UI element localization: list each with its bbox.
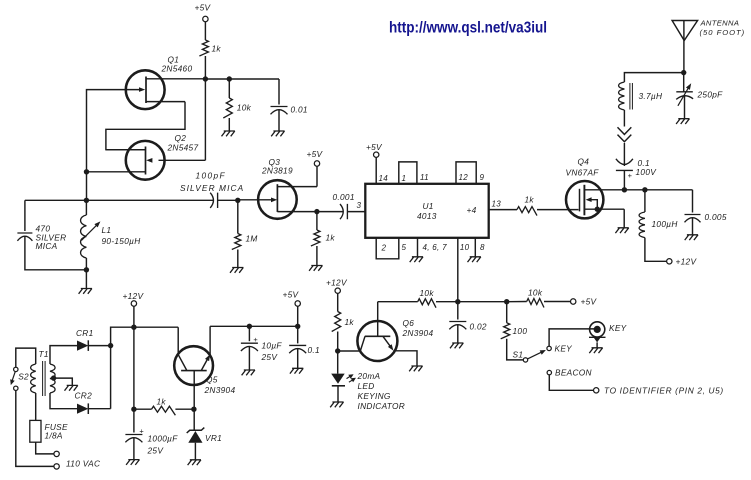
wire 1M to ground: [237, 250, 239, 268]
wire 1k ends: [134, 408, 194, 410]
svg-text:1M: 1M: [246, 234, 258, 244]
wire 100 to S1 hinge: [507, 339, 524, 360]
svg-text:U1: U1: [423, 201, 434, 211]
pin jumper 2-5 tab: [376, 238, 399, 259]
wire keying rail left: [378, 301, 418, 303]
svg-text:TO IDENTIFIER (PIN 2, U5): TO IDENTIFIER (PIN 2, U5): [604, 386, 724, 396]
ground (250pF): [676, 119, 689, 124]
svg-text:Q6: Q6: [403, 318, 415, 328]
power +5V terminal (U1 pin 14): [374, 152, 379, 157]
svg-text:2N3904: 2N3904: [402, 328, 434, 338]
wire 10k to pin10 node: [436, 301, 458, 303]
fuse FUSE 1/8A: [35, 393, 37, 420]
svg-text:1: 1: [402, 174, 407, 183]
ground (VR1): [188, 460, 201, 465]
svg-text:1k: 1k: [525, 194, 535, 204]
ground (key jack): [589, 348, 602, 353]
power +5V terminal (keying pullup): [571, 299, 576, 304]
capacitor 1000uF 25V (filter): [133, 409, 135, 432]
wire +5V rail: [210, 325, 298, 327]
wire pin 10 down to keying rail: [457, 238, 459, 302]
transistor Q2 2N5457 (JFET): [126, 141, 165, 180]
node junction 0.1 / +5V: [295, 324, 300, 329]
svg-text:4013: 4013: [417, 211, 437, 221]
svg-text:100: 100: [513, 326, 528, 336]
transistor Q6 2N3904 (keying): [357, 321, 397, 361]
node junction +12V rail: [131, 325, 136, 330]
svg-text:90-150µH: 90-150µH: [102, 236, 141, 246]
wire +5V to R 1k: [204, 22, 206, 40]
svg-text:2N3904: 2N3904: [204, 385, 236, 395]
svg-text:10: 10: [460, 243, 470, 252]
node junction 10uF: [247, 324, 252, 329]
svg-text:KEY: KEY: [555, 344, 574, 354]
svg-text:2N5460: 2N5460: [161, 64, 193, 74]
inductor L1 90-150uH (variable): [85, 200, 87, 215]
svg-text:S2: S2: [18, 372, 29, 382]
svg-text:2: 2: [381, 243, 387, 252]
ground (center tap): [65, 385, 78, 390]
wire node A down to Q2 gate: [204, 79, 206, 160]
transistor Q1 2N5460 (JFET): [126, 70, 165, 109]
svg-text:1k: 1k: [326, 233, 336, 243]
svg-text:100V: 100V: [636, 167, 658, 177]
wire 1k to Q4 gate: [537, 209, 579, 211]
ground (U1 pin 8): [468, 257, 481, 262]
node A junction: [203, 76, 208, 81]
capacitor 10uF 25V: [248, 326, 250, 341]
svg-text:+12V: +12V: [326, 277, 348, 287]
resistor 1k (Q5 base): [152, 406, 176, 415]
inductor 3.7uH (matching, slug tuned): [619, 82, 625, 110]
transistor Q5 2N3904 (NPN regulator): [174, 346, 213, 385]
transformer T1 primary: [31, 364, 36, 393]
resistor 1k (LED): [337, 293, 339, 311]
diode CR1: [77, 341, 88, 351]
svg-text:VR1: VR1: [205, 433, 222, 443]
transformer T1 secondary: [50, 364, 55, 393]
ground (Q6 emitter): [409, 366, 422, 371]
terminal 110VAC lower: [54, 464, 59, 469]
svg-text:+5V: +5V: [307, 149, 324, 159]
wire chevrons to 0.1 cap: [623, 143, 625, 166]
ground (0.005): [685, 235, 698, 240]
svg-text:+4: +4: [467, 205, 477, 215]
transistor Q4 VN67AF (MOSFET): [566, 181, 603, 218]
svg-text:+5V: +5V: [366, 142, 383, 152]
capacitor 0.02: [457, 302, 459, 320]
ground (0.1 5V): [290, 368, 303, 373]
svg-text:0.01: 0.01: [291, 105, 308, 115]
svg-text:3: 3: [357, 201, 362, 210]
pin jumper 1-11 tab: [399, 162, 417, 184]
wire S2 to T1 primary: [16, 348, 36, 367]
svg-text:1k: 1k: [157, 396, 167, 406]
svg-text:100pF: 100pF: [196, 171, 227, 181]
wire pins 4,6,7 to ground: [417, 238, 419, 257]
node D junction (Q3 source): [314, 209, 319, 214]
svg-text:T1: T1: [39, 349, 49, 359]
ground (Q4 source): [615, 228, 628, 233]
node C junction (Q3 gate): [235, 198, 240, 203]
node junction 1k/1000uF: [131, 407, 136, 412]
svg-text:LED: LED: [358, 381, 375, 391]
svg-text:L1: L1: [102, 225, 112, 235]
power +12V terminal (PSU output): [131, 301, 136, 306]
svg-text:0.005: 0.005: [705, 212, 727, 222]
svg-text:MICA: MICA: [36, 241, 58, 251]
svg-text:Q4: Q4: [578, 157, 590, 167]
antenna symbol: [672, 21, 698, 41]
svg-text:4, 6, 7: 4, 6, 7: [423, 243, 448, 252]
wire LED node to Q6 base: [338, 336, 365, 351]
svg-text:+12V: +12V: [123, 291, 145, 301]
svg-text:5: 5: [402, 243, 407, 252]
wire coil to chevrons: [623, 110, 625, 127]
capacitor 0.1 (5V bypass): [297, 326, 299, 343]
svg-text:0.1: 0.1: [308, 345, 320, 355]
wire 0.1 cap to drain node: [623, 170, 625, 189]
resistor 10k (gate bias): [228, 79, 230, 98]
svg-text:0.001: 0.001: [333, 192, 355, 202]
wire Q3 1k to ground: [316, 246, 318, 266]
wire +5V to pin 14: [375, 157, 377, 183]
wire pin 8 to ground: [474, 238, 476, 257]
node junction 100 resistor: [504, 299, 509, 304]
svg-text:25V: 25V: [147, 445, 165, 455]
terminal BEACON: [547, 370, 551, 374]
node junction tank bottom: [84, 267, 89, 272]
svg-text:1/8A: 1/8A: [45, 430, 63, 440]
wire Q1 gate to left rail: [87, 90, 94, 201]
wire 0.01 to ground: [278, 110, 280, 131]
node junction antenna: [681, 70, 686, 75]
ground (tank): [79, 289, 92, 294]
svg-text:BEACON: BEACON: [555, 368, 592, 378]
svg-text:+: +: [628, 171, 633, 180]
node junction Q4 source: [595, 207, 600, 212]
svg-text:http://www.qsl.net/va3iul: http://www.qsl.net/va3iul: [389, 20, 547, 37]
svg-text:3.7µH: 3.7µH: [639, 91, 663, 101]
wire S2 to 110VAC terminal: [16, 391, 54, 467]
svg-text:8: 8: [480, 243, 485, 252]
svg-text:9: 9: [480, 173, 485, 182]
node junction T1 center tap: [51, 375, 56, 380]
svg-text:CR2: CR2: [75, 391, 93, 401]
ground (10k): [222, 131, 235, 136]
wire BEACON to identifier: [549, 375, 593, 391]
node B junction (10k top): [227, 76, 232, 81]
svg-text:100µH: 100µH: [652, 219, 678, 229]
svg-text:VN67AF: VN67AF: [566, 167, 600, 177]
svg-text:ANTENNA: ANTENNA: [700, 18, 740, 27]
svg-text:+: +: [139, 426, 144, 435]
wire rail to 100 node: [458, 301, 507, 303]
wire 10k to +5V terminal: [507, 301, 571, 303]
resistor 1k (oscillator drain load): [199, 40, 208, 56]
svg-text:12: 12: [459, 173, 469, 182]
resistor 10k (to +5V): [527, 299, 544, 308]
inductor 100uH (RF choke): [644, 190, 646, 212]
wire node A to 10k and 0.01: [205, 78, 279, 80]
ground (Q3 source 1k): [309, 266, 322, 271]
ground (10uF): [242, 370, 255, 375]
svg-text:14: 14: [379, 174, 389, 183]
svg-text:INDICATOR: INDICATOR: [358, 401, 406, 411]
terminal TO IDENTIFIER: [594, 388, 599, 393]
power +12V terminal (via choke): [667, 259, 672, 264]
svg-text:CR1: CR1: [76, 328, 94, 338]
wire +5V terminal to rail: [297, 306, 299, 326]
svg-text:13: 13: [492, 199, 502, 208]
switch S1: [523, 358, 527, 362]
svg-text:SILVER MICA: SILVER MICA: [180, 183, 244, 193]
wire tank bus: [25, 199, 214, 201]
diode CR2: [77, 404, 88, 414]
capacitor 250pF (variable): [683, 73, 685, 92]
wire 10k to ground: [228, 118, 230, 131]
resistor 100 (key line): [506, 302, 508, 323]
resistor 1k (Q4 gate): [517, 207, 537, 216]
svg-text:20mA: 20mA: [357, 371, 381, 381]
wire +12V rail down: [133, 327, 135, 409]
svg-text:2N3819: 2N3819: [261, 166, 293, 176]
power +5V terminal (Q3 drain): [314, 161, 319, 166]
svg-text:+5V: +5V: [581, 297, 598, 307]
pin jumper 12-9 tab: [456, 162, 476, 184]
capacitor 0.01 (bypass): [278, 79, 280, 105]
capacitor 470 SILVER MICA: [24, 200, 26, 231]
svg-text:0.02: 0.02: [470, 321, 487, 331]
svg-text:+: +: [253, 335, 258, 344]
chevron arrows (adjustable core): [618, 127, 632, 134]
wire secondary top to CR1: [50, 346, 77, 364]
node junction Q4 drain left: [622, 187, 627, 192]
power +5V terminal (regulator out): [295, 301, 300, 306]
wire Q4 source to ground: [623, 209, 625, 228]
terminal 110VAC upper: [54, 451, 59, 456]
capacitor 0.005: [692, 190, 694, 213]
wire 100pF to node C: [218, 199, 238, 201]
LED 20mA keying indicator: [337, 351, 339, 374]
svg-text:KEYING: KEYING: [358, 391, 391, 401]
jack sleeve to ground: [589, 336, 606, 338]
node junction pin 10 / 0.02: [455, 299, 460, 304]
switch S2: [14, 367, 18, 371]
wire KEY contact to jack: [549, 329, 596, 346]
resistor 10k (collector to node): [418, 299, 436, 308]
wire 250pF to ground: [684, 96, 686, 119]
zener diode VR1: [193, 409, 195, 430]
node junction CR1 output: [108, 343, 113, 348]
wire antenna node to matching coil: [624, 73, 683, 82]
resistor 1k (Q3 source): [316, 212, 318, 230]
svg-text:+5V: +5V: [283, 289, 300, 299]
wire fuse to 110VAC terminal: [36, 442, 54, 454]
svg-text:250pF: 250pF: [697, 90, 724, 100]
ground (U1 pins 4,6,7): [410, 257, 423, 262]
svg-text:10k: 10k: [420, 288, 435, 298]
svg-text:110 VAC: 110 VAC: [66, 458, 101, 468]
svg-text:10µF: 10µF: [262, 340, 283, 350]
ground (0.01): [271, 131, 284, 136]
wire secondary bottom to CR2: [50, 393, 77, 409]
power +12V terminal (keying): [335, 288, 340, 293]
ground (1M): [230, 268, 243, 273]
svg-text:KEY: KEY: [609, 323, 628, 333]
wire pin 3 into U1: [347, 211, 365, 213]
wire pin 13 out: [489, 209, 517, 211]
ground (1000uF): [126, 460, 139, 465]
wire tank bottom to ground: [85, 270, 87, 289]
capacitor 0.1 100V (series): [616, 159, 633, 171]
svg-text:Q2: Q2: [175, 133, 187, 143]
wire 1k to LED node: [337, 332, 339, 352]
transformer T1 core: [42, 361, 44, 396]
wire +12V terminal to rail: [133, 306, 135, 327]
svg-text:2N5457: 2N5457: [167, 143, 199, 153]
svg-text:10k: 10k: [528, 287, 543, 297]
wire Q3 drain to +5V: [316, 166, 318, 186]
wire drain node rail: [624, 189, 692, 191]
wire 1k to node A: [204, 56, 206, 79]
svg-text:11: 11: [420, 173, 429, 182]
svg-text:10k: 10k: [237, 103, 252, 113]
svg-text:S1: S1: [513, 350, 524, 360]
transistor Q3 2N3819 (JFET): [258, 180, 297, 219]
node junction left rail / tank bus: [84, 198, 89, 203]
terminal KEY (switch contact): [547, 346, 551, 350]
svg-text:1k: 1k: [212, 44, 222, 54]
svg-text:1000µF: 1000µF: [148, 433, 179, 443]
capacitor 100pF SILVER MICA: [210, 193, 217, 208]
wire center tap to ground: [54, 378, 73, 385]
node junction Q4 drain right: [642, 187, 647, 192]
node junction LED / Q6 base: [335, 348, 340, 353]
node junction Q5 base / VR1: [191, 407, 196, 412]
node junction Q2 source / left rail: [84, 169, 89, 174]
ground (LED): [330, 402, 343, 407]
wire Q1 source Z-route to Q2 drain: [106, 102, 185, 150]
svg-text:+5V: +5V: [195, 3, 212, 13]
power +5V terminal (oscillator supply): [203, 16, 208, 21]
connector KEY jack: [590, 322, 605, 337]
svg-text:(50 FOOT): (50 FOOT): [700, 28, 746, 37]
op-amp U1 4013 box: [365, 184, 488, 238]
svg-text:+12V: +12V: [676, 256, 698, 266]
wire rectifier bus: [111, 327, 179, 409]
svg-text:25V: 25V: [261, 352, 279, 362]
resistor 1M (Q3 gate leak): [237, 200, 239, 233]
ground (0.02): [450, 343, 463, 348]
svg-text:1k: 1k: [345, 317, 355, 327]
capacitor 0.001 (coupling to U1): [317, 211, 343, 213]
